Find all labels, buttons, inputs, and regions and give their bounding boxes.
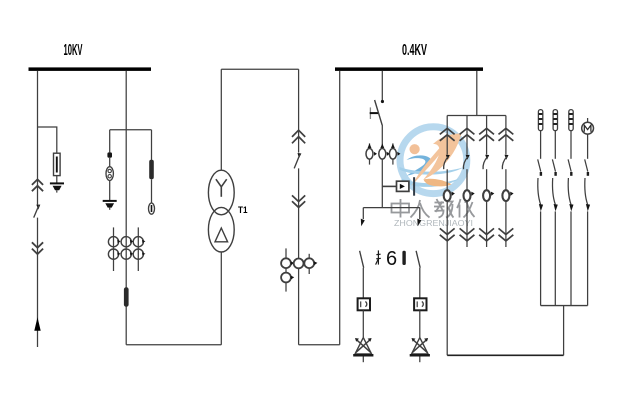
fuse dot (left sub): [107, 152, 112, 157]
feeder P1: [440, 116, 455, 356]
svg-text:6: 6: [386, 248, 397, 270]
subfeeder F wire: [362, 208, 364, 219]
wire: incoming feeder drop A: [37, 71, 39, 205]
cable arrow (incoming): [34, 317, 40, 331]
rail: chain C bottom to riser D: [299, 344, 340, 346]
svg-text:0.4KV: 0.4KV: [402, 42, 427, 59]
wire: stub to subpanel: [563, 306, 565, 356]
svg-text:T1: T1: [238, 205, 248, 216]
rail: subpanel bottom: [541, 305, 588, 307]
feeder P4: [499, 116, 514, 248]
svg-text:ZHONGRENJIAOYI: ZHONGRENJIAOYI: [394, 218, 473, 228]
tee: two outgoing subfeeders: [363, 207, 420, 209]
energy meter box with arrow: [382, 177, 415, 196]
subfeeder G wire: [419, 208, 421, 219]
subpanel branch Q3: [568, 110, 573, 306]
circuit number labels: [376, 248, 406, 270]
surge arrester FA1: [54, 153, 61, 183]
watermark text CJK drawn strokes: [392, 199, 475, 218]
wire: metering drop E: [381, 71, 383, 100]
current transformers (metering, 3x): [366, 143, 400, 164]
drawout chevron lower (chain C): [292, 195, 305, 207]
subpanel branch Q4 with motor: [582, 118, 594, 306]
fuse FU1 (PT branch): [124, 287, 129, 307]
circuit breaker QF2 (chain C): [294, 153, 301, 168]
watermark logo: [392, 127, 475, 228]
switch blade (F): [360, 251, 364, 268]
wire: transformer primary riser: [220, 252, 222, 345]
wire: [419, 268, 421, 299]
discharge counter (right sub): [149, 203, 155, 214]
rail: right panel top: [447, 115, 506, 117]
wire: tee to arrester branch: [38, 127, 57, 153]
subpanel branch Q2: [552, 110, 557, 306]
switch contact (F): [361, 219, 365, 227]
wire: PT branch drop B: [125, 71, 127, 345]
lamp-ground symbol (F): [353, 338, 373, 363]
Y winding glyph: [216, 179, 227, 197]
circuit breaker QF1 (drop A): [34, 205, 41, 218]
meter box (F): [358, 298, 370, 310]
wire: transformer top to connector: [220, 69, 222, 170]
wire: right panel feed: [476, 71, 478, 116]
drawout chevron upper (drop A): [32, 179, 43, 191]
wire: top connector: [221, 68, 298, 70]
surge arrester bar (right sub): [149, 160, 154, 203]
ground (arrester A): [50, 183, 64, 192]
wire: [419, 310, 421, 337]
transformer T1: [208, 170, 234, 252]
rail: PT branch to transformer bottom: [126, 344, 221, 346]
meter box (G): [414, 298, 426, 310]
svg-text:10KV: 10KV: [64, 42, 83, 59]
voltage transformer PT cluster: [108, 227, 145, 271]
wire: bus riser drop D: [339, 71, 341, 345]
bus 10KV: [29, 67, 152, 71]
switch blade (G): [416, 251, 420, 268]
switch contact (G): [417, 219, 421, 227]
ground (left sub): [103, 201, 117, 210]
current transformer group (chain C): [281, 248, 317, 291]
wire: [362, 268, 364, 299]
feeder P3: [479, 116, 494, 248]
drawout chevron upper (chain C): [292, 130, 305, 143]
feeder P2: [460, 116, 475, 248]
delta winding glyph: [215, 228, 228, 242]
lamp-ground symbol (G): [410, 338, 430, 363]
bus 0.4KV: [335, 67, 483, 71]
wire: [109, 158, 111, 167]
rail: bottom link: [447, 354, 563, 356]
drawout chevron lower (drop A): [32, 242, 43, 254]
PT fuse cutout (left sub): [106, 167, 113, 201]
subpanel branch Q1: [538, 110, 543, 306]
fuse switch (drop E): [370, 100, 384, 125]
wire: [362, 310, 364, 337]
wire: tee of PT accessories: [110, 129, 152, 131]
wire: secondary chain C: [298, 69, 300, 152]
